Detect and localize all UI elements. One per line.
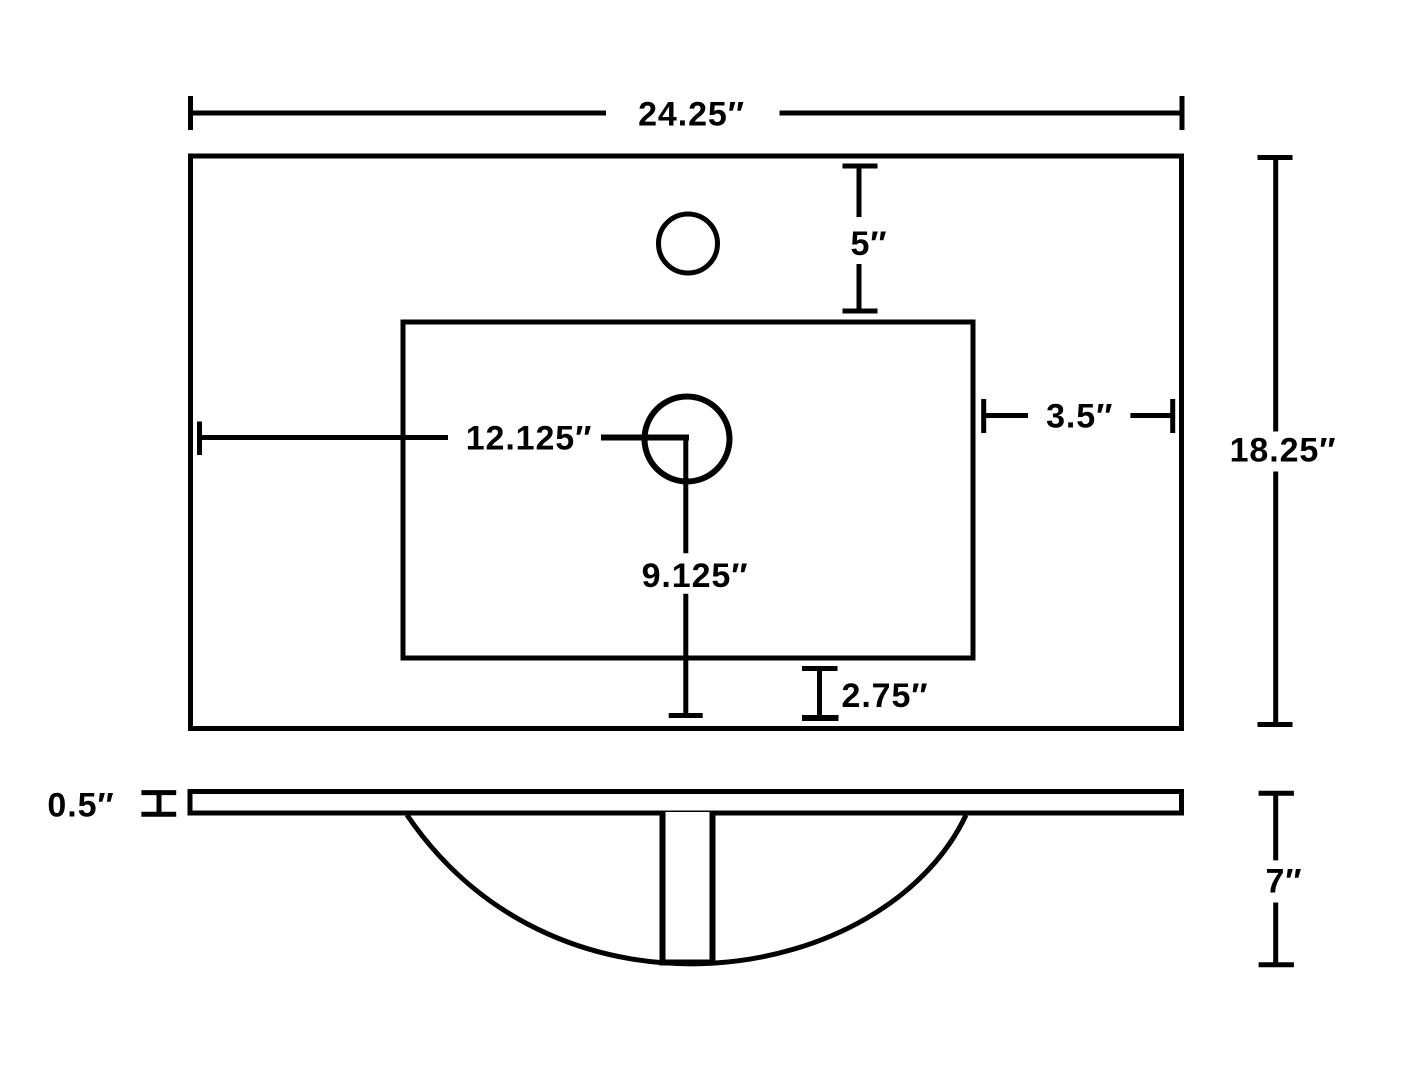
svg-text:24.25″: 24.25″ (638, 96, 745, 134)
svg-text:18.25″: 18.25″ (1230, 432, 1337, 470)
svg-text:0.5″: 0.5″ (47, 786, 114, 824)
svg-text:2.75″: 2.75″ (842, 677, 929, 715)
svg-text:7″: 7″ (1266, 863, 1303, 901)
svg-text:3.5″: 3.5″ (1046, 397, 1113, 435)
svg-text:5″: 5″ (851, 225, 888, 263)
svg-text:12.125″: 12.125″ (466, 420, 593, 458)
svg-text:9.125″: 9.125″ (642, 557, 749, 595)
